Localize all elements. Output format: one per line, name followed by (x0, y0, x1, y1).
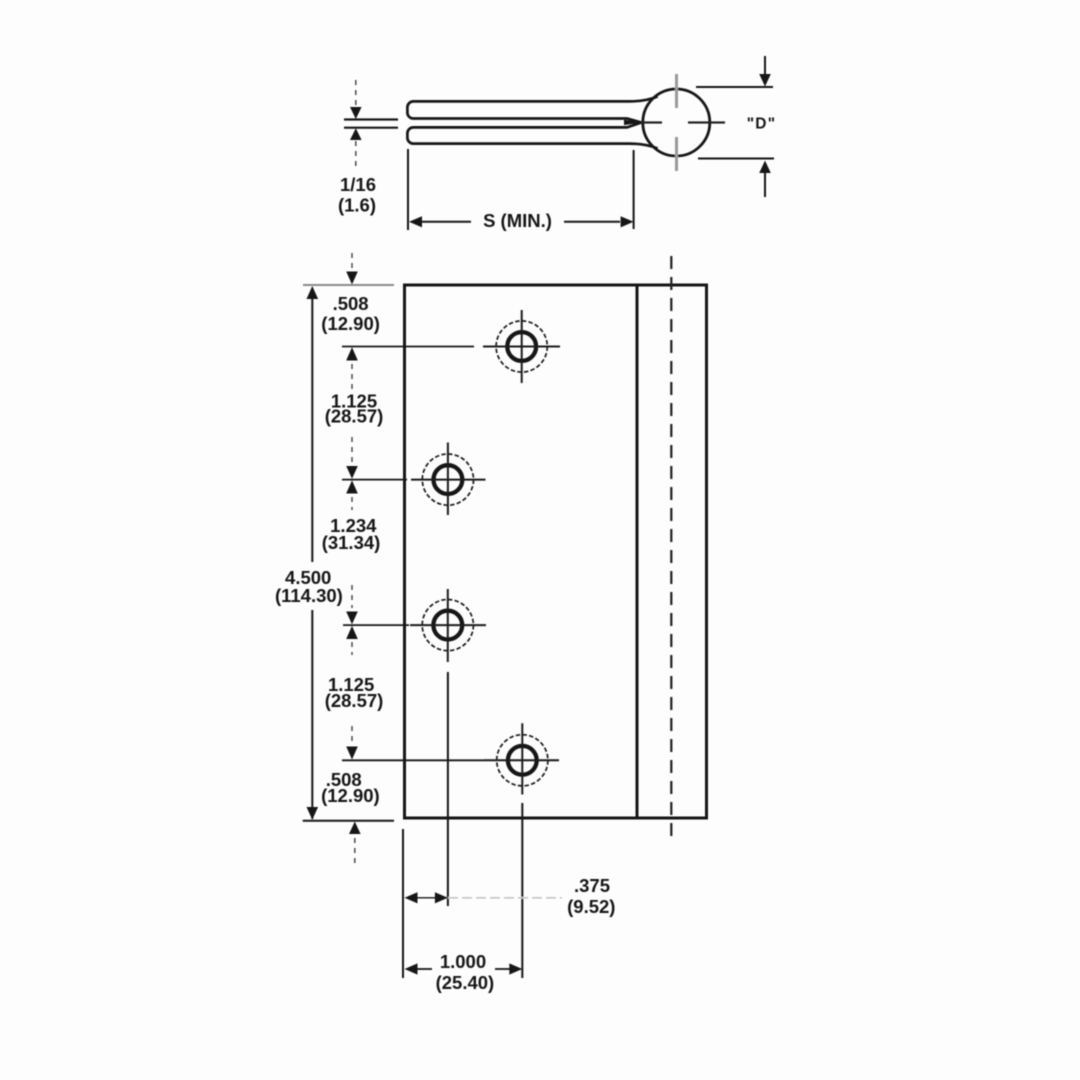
hole4 column extension line (521, 803, 523, 978)
hole 3 dimension leader (343, 624, 409, 626)
.375 dimension arrows (405, 892, 418, 903)
svg-text:(1.6): (1.6) (338, 195, 376, 216)
D dimension bottom extension line (698, 158, 774, 160)
dashes above hole3 line (351, 585, 353, 608)
arrow under hole3 line (346, 626, 358, 639)
4.500 dimension line (311, 288, 313, 819)
D dimension top arrow (764, 56, 766, 74)
arrow under bottom line (349, 822, 361, 835)
hinge leaf outline (405, 285, 707, 818)
cotter pin eye (head circle) (643, 89, 710, 156)
S dimension right extension line (633, 150, 635, 229)
hole 2 outer circle (422, 454, 473, 505)
head horizontal centerline (641, 121, 725, 123)
top arrow above plate (351, 253, 353, 268)
1/16 bottom arrow with dashed tail (355, 141, 357, 167)
cotter pin top prong (407, 97, 657, 123)
bottom left extension line (plate edge) (402, 829, 404, 978)
hole 2 dimension leader (342, 479, 407, 481)
arrow under hole1 line (346, 347, 358, 360)
svg-text:.508: .508 (333, 293, 369, 314)
svg-text:(9.52): (9.52) (567, 896, 615, 917)
svg-text:(12.90): (12.90) (321, 313, 380, 334)
hole 4 crosshair (484, 723, 559, 794)
head vertical centerline (gray) (675, 74, 678, 171)
hole 1 crosshair (483, 310, 560, 383)
svg-text:.375: .375 (574, 875, 610, 896)
S dimension left extension line (407, 149, 409, 230)
hole 1 outer circle (496, 321, 547, 372)
svg-text:1/16: 1/16 (340, 174, 376, 195)
svg-text:(114.30): (114.30) (275, 585, 343, 606)
hole 2 inner circle (434, 465, 463, 494)
svg-text:S (MIN.): S (MIN.) (483, 210, 552, 231)
hole 4 inner circle (508, 746, 537, 775)
hole 3 inner circle (433, 611, 462, 640)
svg-text:(28.57): (28.57) (325, 406, 384, 427)
leaf fold solid line (636, 285, 639, 818)
pin dashed centerline (670, 256, 672, 836)
cotter pin junction wedge (624, 120, 644, 125)
hole 1 dimension leader (342, 346, 474, 348)
top extension line (gray) (303, 284, 394, 286)
svg-text:"D": "D" (747, 116, 777, 133)
dashes above hole4 line (351, 726, 353, 741)
dashes above hole2 line (351, 437, 353, 463)
svg-text:(12.90): (12.90) (321, 785, 380, 806)
svg-text:(25.40): (25.40) (436, 972, 495, 993)
S dimension line with arrows (422, 221, 620, 223)
svg-text:1.000: 1.000 (440, 951, 486, 972)
hole 3 crosshair (410, 589, 486, 662)
1/16 top arrow with dashed tail (355, 80, 357, 106)
bottom extension line (303, 820, 394, 822)
D dimension top extension line (696, 86, 773, 88)
1/16 extension lines (344, 120, 398, 128)
D dimension bottom arrow (764, 173, 766, 197)
hole 3 outer circle (422, 600, 473, 651)
hole 4 dimension leader (342, 759, 484, 761)
hole3 column extension line (447, 672, 449, 906)
hole 2 crosshair (411, 443, 486, 516)
.375 gray leader (448, 897, 562, 899)
arrow under hole2 line (346, 480, 358, 493)
1.000 dimension line with arrows (405, 963, 418, 974)
svg-text:(31.34): (31.34) (322, 532, 381, 553)
cotter pin bottom prong (407, 123, 657, 149)
svg-text:(28.57): (28.57) (325, 690, 384, 711)
hole 4 outer circle (497, 735, 548, 786)
hole 1 inner circle (507, 332, 536, 361)
